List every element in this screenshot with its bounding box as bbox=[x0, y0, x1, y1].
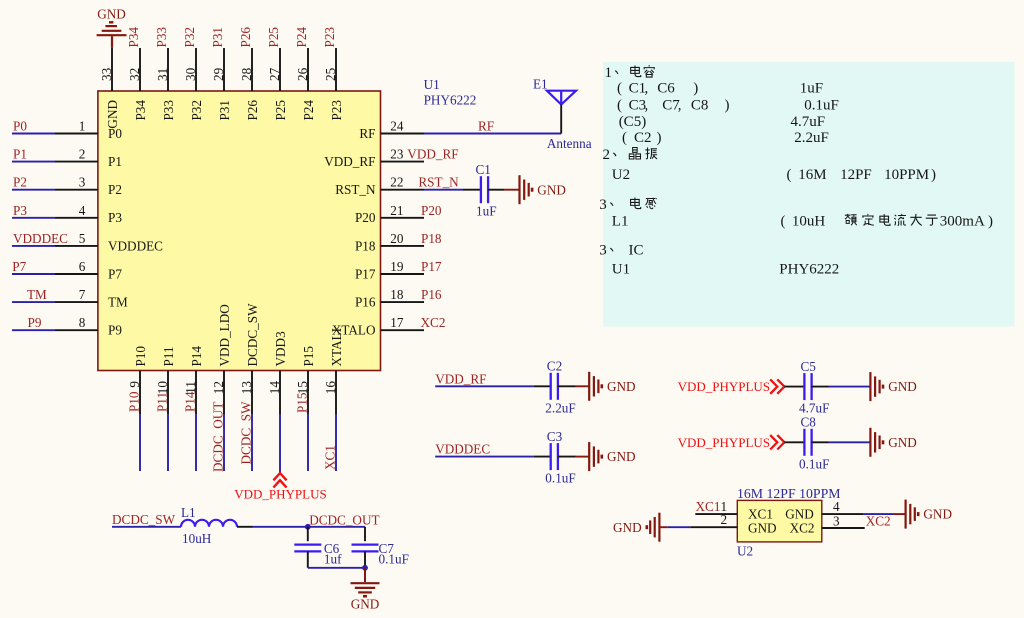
svg-text:U1: U1 bbox=[612, 261, 630, 277]
wire RF net bbox=[424, 119, 561, 134]
wire L1 to DCDC_OUT bbox=[237, 513, 380, 528]
svg-text:0.1uF: 0.1uF bbox=[379, 552, 409, 567]
svg-text:PHY6222: PHY6222 bbox=[779, 261, 839, 277]
op-amp U1 PHY6222 IC body bbox=[98, 91, 381, 371]
inductor L1 bbox=[181, 505, 237, 546]
capacitor C6 bbox=[294, 545, 321, 552]
svg-text:IC: IC bbox=[629, 242, 644, 258]
capacitor C7 labels bbox=[379, 541, 409, 567]
svg-text:P31: P31 bbox=[217, 100, 232, 121]
svg-text:3: 3 bbox=[833, 514, 840, 529]
svg-text:P25: P25 bbox=[266, 27, 281, 48]
pin 10 P11 bottom bbox=[155, 346, 177, 471]
ground at U2 pin 4 bbox=[906, 500, 952, 529]
pin 22 RST_N bbox=[335, 175, 459, 197]
svg-text:VDD_PHYPLUS: VDD_PHYPLUS bbox=[678, 379, 770, 394]
svg-text:PHY6222: PHY6222 bbox=[424, 93, 477, 108]
pin 1 XC1 wire of U2 bbox=[695, 499, 737, 514]
node junction at C6 tap bbox=[305, 524, 311, 530]
svg-text:1: 1 bbox=[79, 119, 86, 134]
pin 30 P32 top bbox=[182, 27, 204, 121]
svg-text:DCDC_OUT: DCDC_OUT bbox=[309, 513, 379, 528]
wire down to C6 bbox=[307, 527, 309, 541]
svg-text:GND: GND bbox=[748, 521, 777, 536]
svg-text:XC1: XC1 bbox=[748, 507, 773, 522]
pin 11 P14 bottom bbox=[183, 346, 205, 471]
ground at C5 bbox=[870, 372, 916, 401]
svg-text:10uH: 10uH bbox=[182, 531, 212, 546]
svg-text:): ) bbox=[693, 80, 698, 96]
svg-text:2: 2 bbox=[721, 512, 728, 527]
wire C2 to ground bbox=[558, 385, 589, 387]
svg-text:GND: GND bbox=[888, 435, 917, 450]
svg-text:P24: P24 bbox=[301, 100, 316, 121]
svg-text:P26: P26 bbox=[245, 100, 260, 121]
wire C6 bottom bbox=[307, 551, 309, 567]
svg-text:1uf: 1uf bbox=[324, 552, 342, 567]
svg-text:P3: P3 bbox=[13, 203, 27, 218]
svg-text:P17: P17 bbox=[421, 259, 442, 274]
svg-text:(: ( bbox=[617, 80, 622, 96]
svg-text:P25: P25 bbox=[273, 100, 288, 121]
svg-text:2: 2 bbox=[603, 147, 611, 163]
pin 4 P3 wire and net label P3 bbox=[12, 203, 122, 225]
svg-text:P18: P18 bbox=[421, 231, 442, 246]
svg-text:1: 1 bbox=[605, 65, 613, 81]
svg-text:27: 27 bbox=[267, 67, 282, 81]
svg-text:RST_N: RST_N bbox=[335, 182, 376, 197]
svg-text:U2: U2 bbox=[612, 167, 630, 183]
pin 15 P15 bottom bbox=[295, 346, 317, 471]
svg-text:XC2: XC2 bbox=[866, 514, 891, 529]
ground at C3 bbox=[589, 442, 635, 471]
svg-text:XC1: XC1 bbox=[696, 499, 721, 514]
svg-text:P26: P26 bbox=[238, 27, 253, 48]
svg-text:P3: P3 bbox=[108, 210, 122, 225]
wire RST_N to C1 bbox=[424, 189, 481, 191]
svg-text:P20: P20 bbox=[355, 210, 376, 225]
svg-text:8: 8 bbox=[79, 315, 86, 330]
pin 28 P26 top bbox=[238, 27, 260, 121]
pin 14 VDD3 bottom bbox=[267, 331, 288, 473]
wire VDD_PHYPLUS to C5 bbox=[784, 386, 804, 388]
svg-text:GND: GND bbox=[613, 520, 642, 535]
svg-text:GND: GND bbox=[537, 182, 566, 197]
svg-text:C8: C8 bbox=[691, 97, 709, 113]
capacitor C7 bbox=[352, 545, 379, 552]
BOM text block bbox=[599, 65, 993, 277]
pin 24 RF bbox=[359, 119, 424, 141]
svg-text:(C5): (C5) bbox=[619, 114, 647, 130]
ground at U2 pin 2 bbox=[613, 513, 659, 542]
svg-text:XTALI: XTALI bbox=[329, 328, 344, 367]
power port VDD_PHYPLUS at C8 bbox=[678, 435, 785, 450]
svg-text:P10: P10 bbox=[133, 346, 148, 367]
svg-text:VDD_PHYPLUS: VDD_PHYPLUS bbox=[234, 487, 326, 502]
svg-text:P0: P0 bbox=[13, 119, 27, 134]
svg-text:,: , bbox=[645, 97, 649, 113]
capacitor C8 labels bbox=[799, 415, 829, 472]
svg-text:14: 14 bbox=[267, 381, 282, 395]
svg-text:15: 15 bbox=[295, 381, 310, 395]
svg-text:12: 12 bbox=[211, 381, 226, 394]
svg-text:16M: 16M bbox=[798, 167, 826, 183]
wire DCDC_SW net bbox=[112, 512, 181, 527]
svg-text:P20: P20 bbox=[421, 203, 442, 218]
svg-text:P33: P33 bbox=[154, 27, 169, 48]
svg-text:E1: E1 bbox=[533, 76, 548, 91]
svg-text:P15: P15 bbox=[295, 392, 310, 413]
svg-text:U2: U2 bbox=[737, 544, 753, 559]
pin 2 GND wire of U2 bbox=[659, 512, 737, 527]
svg-text:3: 3 bbox=[599, 197, 607, 213]
capacitor C1 labels bbox=[476, 162, 497, 219]
pin 13 DCDC_SW bottom bbox=[239, 303, 261, 471]
svg-text:VDD_RF: VDD_RF bbox=[407, 147, 458, 162]
svg-text:10PPM: 10PPM bbox=[884, 167, 929, 183]
svg-text:P1: P1 bbox=[108, 154, 122, 169]
svg-text:6: 6 bbox=[79, 259, 86, 274]
svg-text:20: 20 bbox=[390, 231, 404, 246]
svg-text:DCDC_SW: DCDC_SW bbox=[239, 401, 254, 465]
pin 7 TM wire and net label TM bbox=[12, 287, 128, 309]
svg-text:C1: C1 bbox=[476, 162, 491, 177]
svg-text:4.7uF: 4.7uF bbox=[791, 114, 826, 130]
svg-text:XC2: XC2 bbox=[421, 315, 446, 330]
svg-text:GND: GND bbox=[923, 507, 952, 522]
svg-text:P14: P14 bbox=[189, 346, 204, 367]
svg-text:RF: RF bbox=[478, 119, 494, 134]
power port VDD_PHYPLUS at pin 14 bbox=[234, 473, 326, 501]
svg-text:18: 18 bbox=[390, 287, 404, 302]
svg-text:0.1uF: 0.1uF bbox=[545, 471, 575, 486]
svg-text:26: 26 bbox=[295, 67, 310, 81]
ground below C6 C7 bbox=[351, 583, 380, 612]
svg-text:C6: C6 bbox=[657, 80, 675, 96]
svg-text:XC1: XC1 bbox=[323, 445, 338, 470]
svg-text:28: 28 bbox=[239, 67, 254, 81]
capacitor C1 bbox=[481, 176, 488, 203]
pin 5 VDDDEC wire and net label VDDDEC bbox=[12, 231, 163, 253]
pin 12 VDD_LDO bottom bbox=[211, 304, 233, 472]
svg-text:VDD_LDO: VDD_LDO bbox=[217, 304, 232, 366]
pin 19 P17 bbox=[355, 259, 442, 281]
svg-text:P9: P9 bbox=[28, 315, 42, 330]
svg-text:300mA: 300mA bbox=[940, 214, 985, 230]
svg-text:): ) bbox=[931, 167, 936, 183]
svg-text:31: 31 bbox=[155, 68, 170, 81]
svg-text:16: 16 bbox=[323, 381, 338, 395]
svg-text:Antenna: Antenna bbox=[547, 136, 592, 151]
pin 8 P9 wire and net label P9 bbox=[12, 315, 122, 337]
svg-text:P23: P23 bbox=[322, 27, 337, 48]
capacitor C6 labels bbox=[324, 541, 342, 567]
svg-text:P31: P31 bbox=[210, 27, 225, 48]
svg-text:P34: P34 bbox=[126, 27, 141, 48]
svg-text:C8: C8 bbox=[801, 415, 817, 430]
svg-text:): ) bbox=[725, 97, 730, 113]
svg-text:19: 19 bbox=[390, 259, 404, 274]
svg-text:C3: C3 bbox=[629, 97, 647, 113]
svg-text:GND: GND bbox=[888, 379, 917, 394]
pin 6 P7 wire and net label P7 bbox=[12, 259, 122, 281]
svg-text:P2: P2 bbox=[13, 175, 27, 190]
pin 2 P1 wire and net label P1 bbox=[12, 147, 122, 169]
capacitor C2 bbox=[551, 373, 558, 400]
pin 32 P34 top bbox=[126, 27, 148, 121]
svg-text:VDDDEC: VDDDEC bbox=[13, 231, 68, 246]
capacitor C3 labels bbox=[545, 429, 575, 486]
svg-text:P10: P10 bbox=[127, 391, 142, 412]
svg-text:VDD_RF: VDD_RF bbox=[435, 371, 486, 386]
ground at C2 bbox=[589, 372, 635, 401]
IC U1 designator label bbox=[424, 77, 477, 108]
svg-text:12PF: 12PF bbox=[840, 167, 872, 183]
svg-text:L1: L1 bbox=[612, 214, 629, 230]
svg-text:7: 7 bbox=[79, 287, 86, 302]
svg-text:DCDC_OUT: DCDC_OUT bbox=[211, 402, 226, 472]
svg-text:P7: P7 bbox=[108, 266, 122, 281]
pin 33 GND top bbox=[99, 48, 120, 129]
svg-text:GND: GND bbox=[785, 507, 814, 522]
ground at C1 bbox=[520, 175, 566, 204]
svg-text:DCDC_SW: DCDC_SW bbox=[112, 512, 176, 527]
svg-text:VDD_PHYPLUS: VDD_PHYPLUS bbox=[678, 435, 770, 450]
svg-text:DCDC_SW: DCDC_SW bbox=[245, 303, 260, 367]
BOM info box bbox=[603, 62, 1015, 327]
svg-text:32: 32 bbox=[127, 68, 142, 81]
svg-text:(: ( bbox=[787, 167, 792, 183]
svg-text:C1: C1 bbox=[629, 80, 647, 96]
node junction at ground stem bbox=[362, 565, 368, 571]
svg-text:VDD_RF: VDD_RF bbox=[324, 154, 375, 169]
svg-text:C2: C2 bbox=[634, 130, 652, 146]
svg-text:U1: U1 bbox=[424, 77, 440, 92]
capacitor C5 bbox=[804, 373, 811, 400]
svg-text:P16: P16 bbox=[421, 287, 442, 302]
svg-text:GND: GND bbox=[351, 597, 380, 612]
svg-text:VDDDEC: VDDDEC bbox=[108, 238, 163, 253]
pin 16 XTALI bottom bbox=[323, 328, 345, 471]
wire VDD_PHYPLUS to C8 bbox=[784, 441, 804, 443]
svg-text:XC2: XC2 bbox=[790, 521, 815, 536]
wire C3 to ground bbox=[558, 456, 589, 458]
svg-text:P24: P24 bbox=[294, 27, 309, 48]
svg-text:C3: C3 bbox=[547, 429, 563, 444]
wire joining C6 C7 bottoms bbox=[308, 567, 365, 569]
svg-text:): ) bbox=[988, 214, 993, 230]
pin 21 P20 bbox=[355, 203, 442, 225]
svg-text:P11: P11 bbox=[155, 392, 170, 412]
svg-text:4: 4 bbox=[833, 499, 840, 514]
svg-text:P32: P32 bbox=[182, 27, 197, 48]
capacitor C3 bbox=[551, 443, 558, 470]
pin 26 P24 top bbox=[294, 27, 316, 121]
svg-text:25: 25 bbox=[323, 67, 338, 81]
crystal U2 body bbox=[737, 500, 822, 542]
svg-text:2: 2 bbox=[79, 147, 86, 162]
svg-text:4: 4 bbox=[79, 203, 86, 218]
pin 17 XTALO bbox=[332, 315, 446, 337]
svg-text:3: 3 bbox=[599, 242, 607, 258]
svg-text:24: 24 bbox=[390, 119, 404, 134]
wire C8 to ground bbox=[812, 441, 871, 443]
ground at C8 bbox=[870, 428, 916, 457]
svg-text:P7: P7 bbox=[12, 259, 26, 274]
svg-text:RST_N: RST_N bbox=[418, 175, 459, 190]
svg-text:17: 17 bbox=[390, 315, 404, 330]
svg-text:0.1uF: 0.1uF bbox=[804, 97, 839, 113]
svg-text:VDD3: VDD3 bbox=[273, 331, 288, 367]
pin 18 P16 bbox=[355, 287, 442, 309]
svg-text:9: 9 bbox=[127, 381, 142, 388]
svg-text:GND: GND bbox=[607, 449, 636, 464]
wire down to C7 bbox=[364, 527, 366, 541]
svg-text:P32: P32 bbox=[189, 100, 204, 121]
svg-text:29: 29 bbox=[211, 67, 226, 81]
wire net VDD_RF to C2 bbox=[435, 371, 551, 386]
pin 29 P31 top bbox=[210, 27, 232, 121]
wire net VDDDEC to C3 bbox=[435, 442, 551, 457]
svg-text:22: 22 bbox=[390, 175, 403, 190]
svg-text:P17: P17 bbox=[355, 266, 376, 281]
svg-text:TM: TM bbox=[27, 287, 47, 302]
svg-text:13: 13 bbox=[239, 381, 254, 395]
svg-text:23: 23 bbox=[390, 147, 404, 162]
svg-text:5: 5 bbox=[79, 231, 86, 246]
pin 25 P23 top bbox=[322, 27, 344, 121]
crystal U2 labels bbox=[737, 486, 841, 559]
pin 3 P2 wire and net label P2 bbox=[12, 175, 122, 197]
svg-text:RF: RF bbox=[359, 126, 375, 141]
pin 23 VDD_RF bbox=[324, 147, 458, 169]
power port VDD_PHYPLUS at C5 bbox=[678, 379, 785, 394]
svg-text:,: , bbox=[678, 97, 682, 113]
svg-text:P14: P14 bbox=[183, 391, 198, 412]
svg-text:TM: TM bbox=[108, 295, 128, 310]
svg-text:GND: GND bbox=[97, 7, 126, 22]
svg-text:C5: C5 bbox=[801, 359, 817, 374]
svg-text:P33: P33 bbox=[161, 100, 176, 121]
svg-text:10uH: 10uH bbox=[792, 214, 826, 230]
svg-text:P15: P15 bbox=[301, 346, 316, 367]
svg-text:4.7uF: 4.7uF bbox=[799, 401, 829, 416]
svg-text:2.2uF: 2.2uF bbox=[794, 130, 829, 146]
pin 3 XC2 wire of U2 bbox=[822, 514, 891, 529]
svg-text:2.2uF: 2.2uF bbox=[545, 400, 575, 415]
svg-text:P16: P16 bbox=[355, 295, 376, 310]
svg-text:30: 30 bbox=[183, 67, 198, 81]
pin 27 P25 top bbox=[266, 27, 288, 121]
svg-text:(: ( bbox=[622, 130, 627, 146]
svg-text:1uF: 1uF bbox=[800, 80, 823, 96]
antenna E1 bbox=[533, 76, 592, 151]
capacitor C8 bbox=[804, 429, 811, 456]
svg-text:VDDDEC: VDDDEC bbox=[435, 442, 490, 457]
wire C1 to ground bbox=[488, 189, 519, 191]
svg-text:21: 21 bbox=[390, 203, 403, 218]
pin 1 P0 wire and net label P0 bbox=[12, 119, 122, 141]
svg-text:C2: C2 bbox=[547, 359, 562, 374]
pin 20 P18 bbox=[355, 231, 442, 253]
svg-text:P34: P34 bbox=[133, 100, 148, 121]
svg-text:(: ( bbox=[617, 97, 622, 113]
capacitor C5 labels bbox=[799, 359, 829, 416]
svg-text:3: 3 bbox=[79, 175, 86, 190]
wire C7 bottom bbox=[364, 551, 366, 567]
svg-text:P2: P2 bbox=[108, 182, 122, 197]
svg-text:GND: GND bbox=[105, 100, 120, 129]
ground GND at pin 33 bbox=[97, 7, 127, 48]
svg-text:1uF: 1uF bbox=[476, 204, 497, 219]
svg-text:16M 12PF 10PPM: 16M 12PF 10PPM bbox=[737, 486, 841, 501]
pin 4 GND wire of U2 bbox=[822, 499, 906, 514]
svg-text:P9: P9 bbox=[108, 323, 122, 338]
svg-text:L1: L1 bbox=[181, 505, 196, 520]
svg-text:P11: P11 bbox=[161, 346, 176, 366]
capacitor C2 labels bbox=[545, 359, 575, 416]
svg-text:0.1uF: 0.1uF bbox=[799, 456, 829, 471]
pin 9 P10 bottom bbox=[127, 346, 149, 471]
pin 31 P33 top bbox=[154, 27, 176, 121]
wire to ground bbox=[364, 568, 366, 582]
svg-text:P18: P18 bbox=[355, 238, 376, 253]
svg-text:GND: GND bbox=[607, 379, 636, 394]
svg-text:33: 33 bbox=[99, 67, 114, 81]
svg-text:P23: P23 bbox=[329, 100, 344, 121]
wire C5 to ground bbox=[812, 386, 871, 388]
svg-text:,: , bbox=[645, 80, 649, 96]
svg-text:(: ( bbox=[781, 214, 786, 230]
svg-text:P1: P1 bbox=[13, 147, 27, 162]
svg-text:): ) bbox=[657, 130, 662, 146]
